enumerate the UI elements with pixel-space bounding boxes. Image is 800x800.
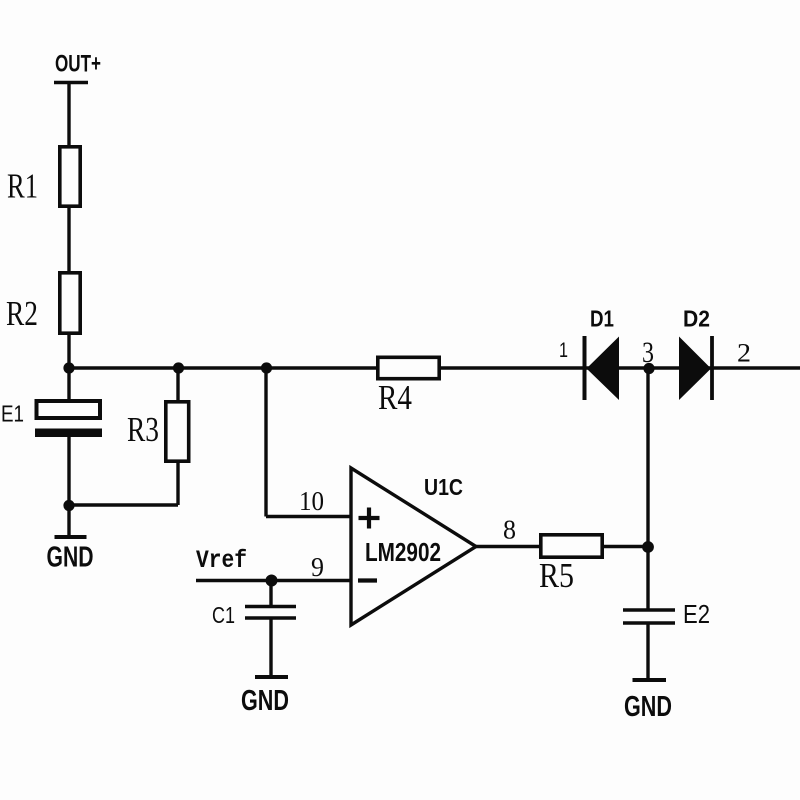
svg-text:9: 9 [311, 552, 324, 582]
wire junction to R3 [176, 368, 179, 401]
svg-text:R5: R5 [539, 556, 574, 595]
capacitor E2 plate top [623, 608, 675, 612]
svg-text:E1: E1 [1, 401, 24, 427]
wire C1 to ground [269, 618, 272, 677]
op-amp plus sign [359, 508, 380, 529]
wire op-amp output to R5 [474, 545, 540, 548]
junction dot at Vref/C1 node [266, 575, 278, 587]
ground bar GND3 [633, 678, 667, 682]
wire main horizontal rail [68, 366, 800, 369]
wire R3 bottom to left junction [69, 503, 178, 506]
wire node 3 down to E2 [646, 368, 649, 610]
diode D1 cathode bar [583, 336, 587, 400]
svg-text:D2: D2 [683, 306, 710, 332]
capacitor C1 plate bottom [245, 616, 296, 620]
wire E1 to ground junction [67, 437, 70, 537]
wire R5 to junction [604, 545, 648, 548]
capacitor E2 plate bottom [623, 621, 675, 625]
op-amp minus sign [358, 578, 377, 582]
svg-text:E2: E2 [683, 601, 710, 629]
svg-text:10: 10 [299, 486, 324, 516]
svg-text:U1C: U1C [424, 474, 463, 500]
junction dot at ground node [63, 500, 74, 511]
wire OUT+ terminal to R1 [67, 83, 70, 147]
svg-text:R2: R2 [6, 294, 38, 333]
wire to op-amp plus input [266, 515, 351, 518]
svg-text:GND: GND [241, 685, 289, 717]
wire junction down to op-amp plus input [264, 368, 267, 517]
junction dot at op-amp branch node [261, 362, 272, 373]
svg-text:R4: R4 [378, 378, 412, 417]
svg-text:D1: D1 [590, 306, 614, 332]
svg-text:1: 1 [559, 339, 568, 362]
resistor R4 [378, 357, 439, 378]
svg-text:C1: C1 [212, 602, 235, 628]
ground bar GND1 [55, 535, 87, 539]
resistor R1 [60, 147, 80, 206]
capacitor C1 plate top [245, 605, 296, 609]
svg-text:GND: GND [624, 691, 672, 723]
svg-text:Vref: Vref [196, 546, 247, 575]
wire R3 bottom down [176, 463, 179, 505]
wire junction down to C1 [269, 581, 272, 608]
resistor R3 [166, 402, 189, 461]
junction dot at R5/E2 node [642, 541, 654, 553]
op-amp U1C triangle [351, 468, 476, 625]
wire R1 to R2 [67, 208, 70, 272]
junction dot at R3 node [173, 362, 184, 373]
capacitor E1 negative plate [35, 429, 102, 438]
ground bar GND2 [255, 675, 288, 679]
resistor R2 [60, 273, 80, 333]
diode D2 cathode bar [710, 336, 714, 400]
junction dot at R2/E1 node [63, 362, 74, 373]
wire R2 down to E1 [67, 335, 70, 400]
svg-text:R3: R3 [127, 410, 159, 449]
svg-text:OUT+: OUT+ [55, 51, 101, 78]
svg-text:LM2902: LM2902 [365, 539, 441, 567]
junction dot at node 3 [643, 363, 654, 374]
svg-text:2: 2 [737, 339, 751, 368]
diode D1 triangle [587, 337, 620, 401]
capacitor E1 positive plate [37, 401, 101, 418]
svg-text:8: 8 [503, 515, 516, 545]
terminal bar OUT+ [54, 81, 88, 84]
diode D2 triangle [679, 337, 711, 401]
svg-text:R1: R1 [7, 167, 38, 206]
resistor R5 [541, 535, 602, 557]
wire E2 to ground [646, 623, 649, 680]
wire Vref to op-amp minus input [196, 579, 351, 582]
svg-text:GND: GND [47, 542, 94, 574]
